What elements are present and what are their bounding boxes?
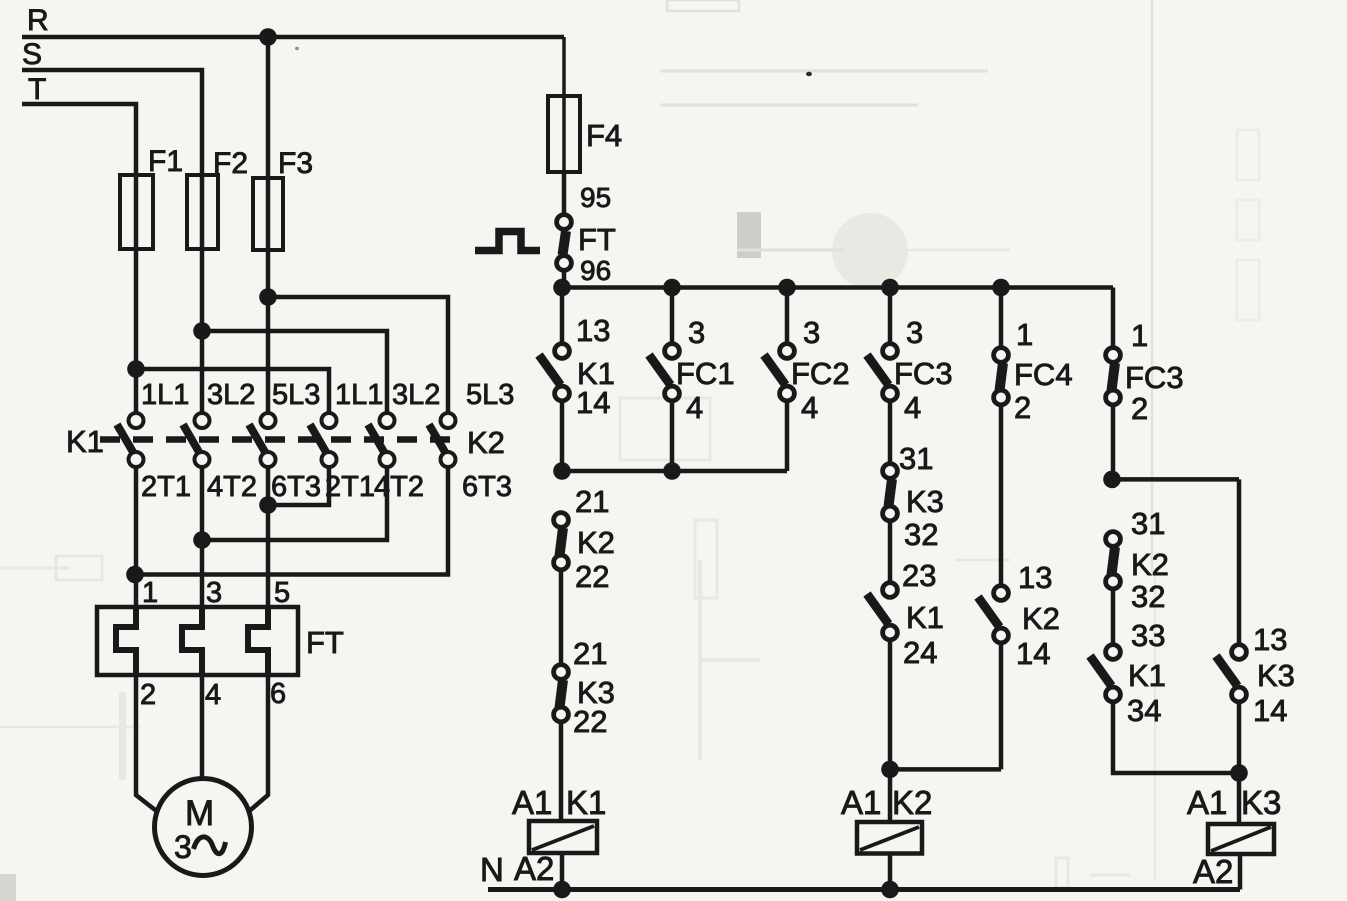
svg-text:R: R — [27, 4, 49, 37]
svg-text:K2: K2 — [1131, 547, 1169, 582]
svg-text:1L1: 1L1 — [141, 379, 189, 411]
svg-text:1L1: 1L1 — [335, 379, 383, 411]
svg-text:FC2: FC2 — [791, 356, 850, 391]
svg-text:4T2: 4T2 — [374, 471, 424, 503]
svg-text:K3: K3 — [1257, 658, 1295, 693]
svg-text:5L3: 5L3 — [466, 379, 514, 411]
svg-text:3: 3 — [206, 577, 222, 609]
svg-text:31: 31 — [1131, 506, 1165, 541]
svg-text:K1: K1 — [566, 784, 606, 821]
svg-text:5L3: 5L3 — [272, 379, 320, 411]
svg-text:6T3: 6T3 — [462, 471, 512, 503]
svg-text:14: 14 — [1016, 636, 1050, 671]
svg-text:2T1: 2T1 — [325, 471, 375, 503]
svg-text:96: 96 — [580, 255, 611, 286]
svg-text:13: 13 — [1018, 560, 1052, 595]
svg-text:13: 13 — [576, 313, 610, 348]
svg-text:22: 22 — [573, 704, 607, 739]
svg-text:FT: FT — [578, 222, 616, 257]
svg-text:31: 31 — [899, 441, 933, 476]
svg-text:3: 3 — [803, 315, 820, 350]
svg-text:2T1: 2T1 — [141, 471, 191, 503]
svg-text:2: 2 — [140, 679, 156, 711]
svg-text:S: S — [22, 38, 42, 71]
svg-text:F2: F2 — [213, 147, 248, 180]
svg-text:3L2: 3L2 — [207, 379, 255, 411]
svg-text:K1: K1 — [66, 424, 104, 459]
svg-text:6T3: 6T3 — [271, 471, 321, 503]
svg-text:K2: K2 — [467, 425, 505, 460]
svg-text:3: 3 — [688, 315, 705, 350]
svg-text:3L2: 3L2 — [392, 379, 440, 411]
svg-text:5: 5 — [274, 577, 290, 609]
svg-text:M: M — [185, 794, 214, 833]
svg-text:K2: K2 — [892, 784, 932, 821]
svg-text:K2: K2 — [1022, 601, 1060, 636]
svg-text:F3: F3 — [278, 147, 313, 180]
svg-text:4T2: 4T2 — [207, 471, 257, 503]
svg-text:4: 4 — [801, 390, 818, 425]
svg-text:4: 4 — [686, 390, 703, 425]
svg-text:4: 4 — [205, 679, 221, 711]
svg-text:33: 33 — [1131, 618, 1165, 653]
svg-text:A1: A1 — [1187, 784, 1227, 821]
svg-text:3: 3 — [906, 315, 923, 350]
svg-text:K2: K2 — [577, 525, 615, 560]
svg-text:FT: FT — [306, 625, 344, 660]
svg-text:K3: K3 — [906, 484, 944, 519]
svg-text:21: 21 — [573, 636, 607, 671]
svg-text:14: 14 — [576, 385, 610, 420]
svg-text:A2: A2 — [514, 850, 554, 887]
svg-text:FC3: FC3 — [894, 356, 953, 391]
svg-text:F4: F4 — [586, 118, 622, 153]
svg-text:1: 1 — [1131, 318, 1148, 353]
svg-text:34: 34 — [1127, 693, 1161, 728]
svg-text:FC3: FC3 — [1125, 360, 1184, 395]
svg-text:32: 32 — [1131, 579, 1165, 614]
svg-text:21: 21 — [575, 484, 609, 519]
svg-text:N: N — [480, 851, 504, 888]
svg-text:A1: A1 — [512, 784, 552, 821]
svg-text:4: 4 — [904, 390, 921, 425]
svg-text:3: 3 — [174, 829, 192, 865]
svg-text:13: 13 — [1253, 622, 1287, 657]
svg-text:K3: K3 — [1241, 784, 1281, 821]
svg-text:1: 1 — [1016, 317, 1033, 352]
svg-text:14: 14 — [1253, 693, 1287, 728]
svg-text:32: 32 — [904, 517, 938, 552]
svg-text:FC1: FC1 — [676, 356, 735, 391]
svg-text:22: 22 — [575, 559, 609, 594]
svg-text:23: 23 — [902, 558, 936, 593]
svg-text:FC4: FC4 — [1014, 357, 1073, 392]
svg-text:2: 2 — [1014, 390, 1031, 425]
svg-text:A2: A2 — [1193, 853, 1233, 890]
svg-text:A1: A1 — [841, 784, 881, 821]
svg-text:K1: K1 — [1128, 658, 1166, 693]
svg-text:2: 2 — [1131, 391, 1148, 426]
svg-text:24: 24 — [903, 635, 937, 670]
svg-text:6: 6 — [270, 678, 286, 710]
svg-text:95: 95 — [580, 182, 611, 213]
svg-text:T: T — [28, 73, 46, 106]
svg-text:F1: F1 — [148, 145, 183, 178]
svg-text:1: 1 — [142, 577, 158, 609]
svg-text:K1: K1 — [906, 600, 944, 635]
